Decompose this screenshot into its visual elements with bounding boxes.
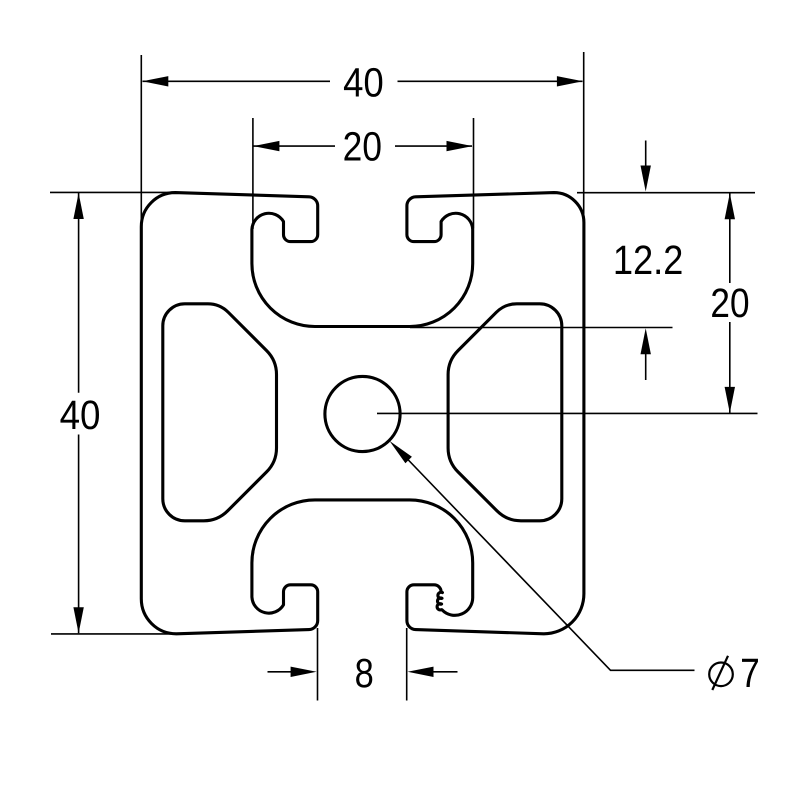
dimension text 20 right: [712, 288, 748, 317]
right 12.2 bottom extension line: [410, 327, 673, 329]
right 12.2 arrowhead lower: [641, 328, 651, 354]
right 12.2 upper arrow shaft: [645, 141, 647, 169]
top 40 arrowhead left: [142, 76, 168, 86]
top 40 extension line left: [140, 55, 142, 223]
left 40 extension line top: [50, 191, 176, 193]
dimension text 20 top: [344, 132, 380, 161]
dimension text 40 left: [60, 400, 99, 429]
dimension text 12.2 right: [616, 245, 682, 274]
top 40 extension line right: [583, 52, 585, 225]
top 20 arrowhead left: [253, 141, 279, 151]
right 20 arrowhead bottom: [725, 387, 735, 413]
top 20 extension line right: [473, 118, 475, 229]
bottom 8 left arrow shaft: [268, 671, 293, 673]
bottom 8 arrowhead right: [408, 667, 434, 677]
top 20 dimension line: [254, 145, 336, 147]
dia7 leader arrowhead: [390, 441, 412, 463]
right 20 center extension line: [377, 412, 758, 414]
bottom 8 extension line right: [406, 628, 408, 701]
left interior cavity: [163, 304, 277, 521]
dimension text 8 bottom: [356, 659, 372, 688]
top 40 arrowhead right: [557, 76, 583, 86]
dimension text 7 of dia7 label: [742, 659, 758, 687]
left 40 dimension line: [78, 193, 80, 393]
dimension text 40 top: [344, 68, 382, 97]
bottom 8 extension line left: [317, 628, 319, 701]
top 20 arrowhead right: [447, 141, 473, 151]
extrusion profile outer outline with T-slots top and bottom: [141, 193, 584, 634]
left 40 arrowhead top: [73, 193, 83, 219]
dia symbol of dia7 label: [709, 663, 733, 687]
bottom 8 right arrow shaft: [432, 671, 458, 673]
left 40 extension line bottom: [51, 633, 174, 635]
right 20 arrowhead top: [725, 193, 735, 219]
top 40 dimension line: [143, 80, 331, 82]
dia7 leader line: [405, 457, 695, 671]
left 40 arrowhead bottom: [73, 607, 83, 633]
right 12.2 arrowhead upper: [641, 166, 651, 192]
right 20 dimension line: [729, 193, 731, 283]
right interior cavity: [448, 304, 562, 521]
bottom 8 arrowhead left: [291, 667, 317, 677]
right 12.2/20 top extension line: [577, 192, 755, 194]
top 20 extension line left: [252, 118, 254, 229]
right 12.2 lower arrow shaft: [645, 352, 647, 380]
center hole dia 7: [325, 376, 400, 451]
